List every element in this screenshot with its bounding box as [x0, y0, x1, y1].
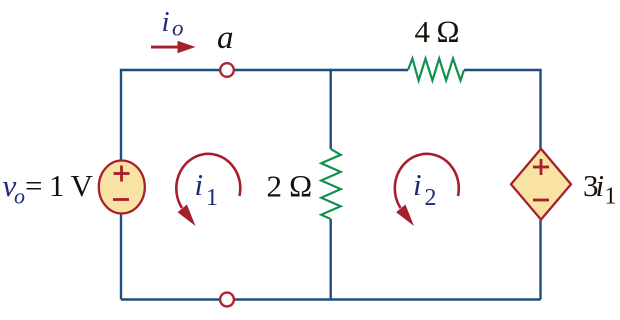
- plus sign of diamond: [533, 159, 549, 175]
- resistor 2-ohm (vertical zigzag): [321, 149, 341, 219]
- svg-text:i: i: [195, 167, 204, 202]
- svg-text:2: 2: [425, 185, 437, 211]
- svg-text:i: i: [162, 6, 170, 38]
- dependent source 3i1 (diamond): [511, 149, 571, 220]
- wire right branch lower (diamond to bottom corner): [539, 220, 541, 300]
- svg-text:a: a: [217, 20, 234, 56]
- plus sign of source: [114, 166, 130, 182]
- minus sign of source: [113, 198, 129, 201]
- mesh current i2 arc: [395, 154, 459, 208]
- mesh current i1 arc: [176, 154, 240, 208]
- wire left branch lower (source bottom to bottom corner): [120, 213, 122, 300]
- minus sign of diamond: [533, 199, 549, 202]
- voltage source V1 (independent, circle): [99, 161, 145, 214]
- svg-text:o: o: [172, 16, 184, 41]
- mesh current i2 arrowhead: [396, 205, 414, 227]
- resistor 4-ohm (horizontal zigzag): [408, 59, 464, 81]
- wire top-left segment (left corner to node a): [121, 69, 227, 71]
- svg-text:i: i: [413, 167, 422, 202]
- svg-text:4 Ω: 4 Ω: [415, 14, 460, 49]
- wire node a to 4-ohm resistor: [227, 69, 408, 71]
- svg-text:1: 1: [605, 184, 617, 210]
- wire bottom rail: [121, 298, 541, 300]
- wire middle branch lower (2-ohm to bottom wire): [330, 219, 332, 301]
- wire middle branch upper (top wire to 2-ohm): [330, 69, 332, 149]
- mesh current i1 arrowhead: [178, 205, 196, 227]
- svg-text:2 Ω: 2 Ω: [267, 169, 313, 204]
- svg-text:1: 1: [206, 185, 218, 211]
- wire left branch upper (corner to source top): [120, 69, 122, 161]
- current io arrow: [151, 41, 196, 54]
- node a circle (top): [220, 63, 234, 77]
- svg-text:i: i: [596, 168, 605, 203]
- wire right branch upper (top corner to diamond): [539, 69, 541, 149]
- svg-text:= 1 V: = 1 V: [25, 168, 94, 203]
- node circle (bottom): [220, 293, 234, 307]
- wire 4-ohm resistor to top-right corner: [464, 69, 541, 71]
- svg-text:o: o: [14, 184, 25, 209]
